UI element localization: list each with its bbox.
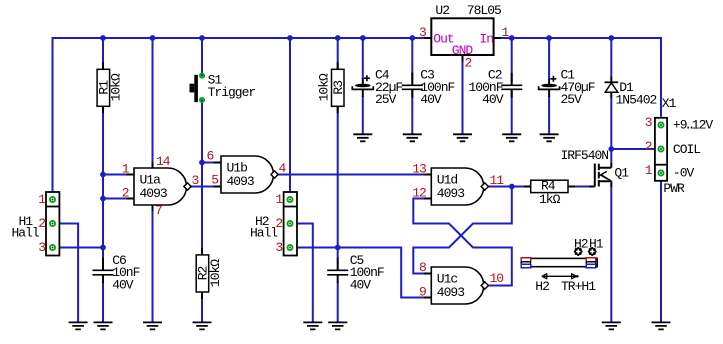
svg-text:2: 2 — [275, 216, 282, 231]
svg-text:9: 9 — [419, 285, 426, 300]
svg-text:3: 3 — [38, 240, 45, 255]
svg-text:40V: 40V — [482, 92, 504, 107]
svg-text:R3: R3 — [331, 81, 346, 95]
svg-text:40V: 40V — [420, 92, 442, 107]
svg-text:X1: X1 — [662, 96, 677, 111]
svg-text:13: 13 — [412, 162, 426, 177]
svg-text:H2: H2 — [535, 279, 549, 294]
svg-text:1: 1 — [38, 192, 46, 207]
svg-text:4093: 4093 — [227, 174, 254, 189]
svg-text:5: 5 — [211, 173, 218, 188]
svg-text:TR+H1: TR+H1 — [561, 279, 596, 294]
svg-text:Out: Out — [433, 31, 454, 46]
svg-text:2: 2 — [122, 186, 129, 201]
svg-text:8: 8 — [419, 260, 426, 275]
svg-text:10kΩ: 10kΩ — [317, 73, 332, 101]
svg-text:Trigger: Trigger — [208, 85, 256, 100]
svg-text:40V: 40V — [350, 277, 372, 292]
svg-text:1kΩ: 1kΩ — [539, 192, 561, 207]
svg-text:PWR: PWR — [663, 181, 685, 196]
svg-text:Q1: Q1 — [614, 166, 629, 181]
svg-text:In: In — [479, 31, 493, 46]
svg-text:-0V: -0V — [673, 166, 695, 181]
svg-text:14: 14 — [156, 154, 171, 169]
svg-text:1: 1 — [275, 192, 283, 207]
svg-text:78L05: 78L05 — [467, 3, 501, 18]
svg-text:4093: 4093 — [437, 186, 464, 201]
svg-text:25V: 25V — [561, 92, 583, 107]
svg-text:40V: 40V — [112, 277, 134, 292]
svg-text:+9..12V: +9..12V — [673, 118, 714, 133]
svg-text:U2: U2 — [435, 3, 449, 18]
svg-text:3: 3 — [645, 115, 652, 130]
svg-text:4093: 4093 — [437, 285, 464, 300]
svg-text:2: 2 — [645, 139, 652, 154]
svg-text:COIL: COIL — [673, 142, 700, 157]
svg-text:1: 1 — [122, 162, 130, 177]
svg-text:2: 2 — [38, 216, 45, 231]
svg-text:1: 1 — [645, 163, 653, 178]
svg-text:10kΩ: 10kΩ — [109, 73, 124, 101]
svg-text:10: 10 — [490, 271, 504, 286]
svg-text:3: 3 — [275, 240, 282, 255]
svg-text:H2: H2 — [574, 236, 588, 251]
svg-text:1N5402: 1N5402 — [616, 92, 657, 107]
svg-text:3: 3 — [192, 173, 199, 188]
svg-text:1: 1 — [502, 25, 510, 40]
svg-text:H1: H1 — [589, 236, 604, 251]
svg-text:Hall: Hall — [12, 225, 40, 240]
svg-text:11: 11 — [490, 173, 505, 188]
svg-text:7: 7 — [155, 203, 162, 218]
svg-text:12: 12 — [412, 186, 426, 201]
svg-text:IRF540N: IRF540N — [561, 148, 609, 163]
svg-text:4: 4 — [279, 161, 287, 176]
svg-text:25V: 25V — [375, 92, 397, 107]
svg-text:4093: 4093 — [140, 186, 167, 201]
svg-text:6: 6 — [207, 149, 214, 164]
svg-text:2: 2 — [465, 56, 472, 71]
svg-text:10kΩ: 10kΩ — [208, 259, 223, 287]
svg-text:3: 3 — [419, 25, 426, 40]
svg-text:Hall: Hall — [250, 225, 278, 240]
